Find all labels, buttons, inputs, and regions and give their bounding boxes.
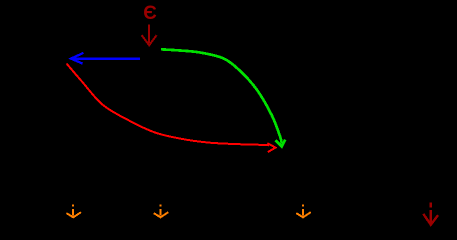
arrow D4: dark red dashed down-arrow (rightmost, larger) [423, 202, 438, 224]
arrow B1: blue horizontal arrow pointing left [71, 53, 140, 64]
arrow D3: small orange dashed down-arrow (third) [296, 204, 311, 217]
arrow D2: small orange dashed down-arrow (second) [154, 204, 169, 217]
arrow V1: dark red vertical arrow below Є [142, 25, 157, 46]
svg-text:Є: Є [143, 3, 157, 24]
arrow G1: green curved arrow from top-center to mid-right, pointing down [161, 49, 285, 146]
node Є (dark red label at top) [143, 3, 157, 24]
arrow R1: red curved arrow from upper-left to mid-right, pointing right [67, 64, 276, 153]
arrow D1: small orange dashed down-arrow (leftmost) [66, 204, 81, 217]
